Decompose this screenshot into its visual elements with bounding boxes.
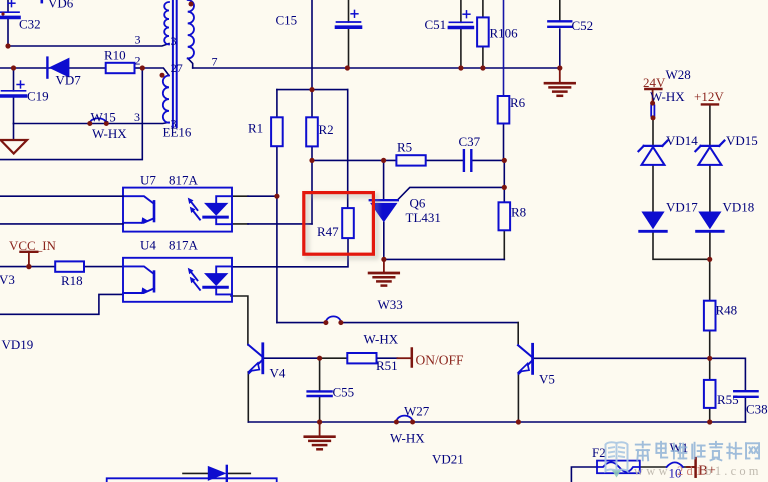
wire U4 collector input (R18 net) <box>0 266 55 268</box>
wire R51 to ON/OFF <box>377 357 398 359</box>
wire R55 bottom stub <box>709 408 711 422</box>
transformer winding primary top (pin 3) <box>164 2 169 45</box>
junction C15/rail <box>345 65 350 70</box>
svg-text:VD15: VD15 <box>726 133 758 148</box>
wire C51 column <box>460 0 462 22</box>
wire C19 column <box>13 68 15 91</box>
jumper W28 (vertical) <box>650 105 652 116</box>
svg-text:F2: F2 <box>592 445 606 460</box>
U4 LED <box>216 266 232 273</box>
svg-text:R47: R47 <box>317 224 339 239</box>
junction R55/rail <box>707 419 712 424</box>
diode VD17 <box>641 212 664 230</box>
jumper W33 <box>326 316 341 322</box>
junction TL431 anode/ground <box>381 257 386 262</box>
wire R10 to node 2 junction <box>135 67 143 69</box>
wire left rail y=68 (VD7/R10) <box>0 67 106 69</box>
svg-text:W-HX: W-HX <box>364 332 399 347</box>
svg-text:C55: C55 <box>333 385 355 400</box>
resistor R48 <box>704 301 716 331</box>
component box (bottom left, partial) <box>107 478 277 482</box>
jumper W1 <box>667 462 683 467</box>
resistor R5 <box>396 155 425 165</box>
ground (C52 net) <box>545 82 575 85</box>
wire W28 to VD14 <box>652 118 654 145</box>
svg-text:C37: C37 <box>459 134 481 149</box>
diode VD18 <box>698 212 721 230</box>
wire C38 branch <box>710 358 746 391</box>
svg-text:W27: W27 <box>404 404 430 419</box>
wire V4 base to C55 node <box>264 357 319 359</box>
resistor R47 <box>342 208 354 238</box>
transformer winding lower-left (pins 27/3) <box>163 76 169 123</box>
wire R47 column upper (89.6 to R47) <box>347 90 349 209</box>
wire TL431 ref line <box>398 187 505 199</box>
junction TL431 cathode node <box>381 158 386 163</box>
wire TL431 cathode column <box>383 160 385 199</box>
wire R6 column from top <box>503 0 505 96</box>
U7 light arrows <box>191 201 198 210</box>
watermark book icon <box>606 442 628 471</box>
junction R48/V5 base <box>707 356 712 361</box>
svg-text:+12V: +12V <box>694 89 724 104</box>
transformer T1 EE16 core <box>172 0 174 127</box>
transformer polarity dot lower-left <box>160 73 165 78</box>
wire V5 base to R48 node <box>534 357 710 359</box>
junction R1-R2 node <box>309 87 314 92</box>
svg-text:C19: C19 <box>27 89 49 104</box>
capacitor C51 <box>449 21 472 23</box>
wire main rail y=68 (pin 7 net) <box>193 67 560 69</box>
svg-text:V5: V5 <box>539 371 555 386</box>
junction node 2 (R10) <box>140 65 145 70</box>
wire sub-rail y=89.6 <box>277 89 348 91</box>
svg-text:R8: R8 <box>511 205 526 220</box>
svg-text:27: 27 <box>171 61 183 75</box>
svg-text:C32: C32 <box>19 16 41 31</box>
junction C51/rail <box>458 65 463 70</box>
U7 phototransistor <box>123 196 154 204</box>
diode (bottom left, partial) <box>208 466 227 481</box>
wire C37 to R6 node <box>472 159 504 161</box>
wire ON/OFF red segment <box>397 357 410 359</box>
ground (TL431) <box>369 272 399 275</box>
svg-text:TL431: TL431 <box>406 210 441 225</box>
wire U7 LED cathode link <box>232 223 248 225</box>
svg-text:U4: U4 <box>140 238 156 253</box>
jumper W27 <box>396 416 412 422</box>
resistor R2 <box>306 117 318 146</box>
svg-text:3: 3 <box>171 117 177 131</box>
junction R6/C37 node <box>502 158 507 163</box>
svg-text:ON/OFF: ON/OFF <box>416 353 465 368</box>
wire R1 top stub <box>276 90 278 118</box>
svg-text:3: 3 <box>134 110 140 124</box>
capacitor C37 <box>463 150 465 171</box>
wire U4 cathode to V4 collector <box>231 296 248 345</box>
svg-text:R5: R5 <box>397 139 412 154</box>
svg-text:W33: W33 <box>378 297 403 312</box>
wire R47 bottom to U4 anode <box>232 238 348 267</box>
wire B+ red stub <box>687 466 694 468</box>
junction U7 anode/R1 column <box>274 194 279 199</box>
wire x=312 column from top <box>311 0 313 90</box>
svg-text:W28: W28 <box>666 67 691 82</box>
wire R2 bottom to U7 cathode node <box>311 146 313 224</box>
capacitor C15 <box>337 21 361 23</box>
junction C19/VD7 line <box>11 65 16 70</box>
resistor R55 <box>704 380 716 408</box>
wire C15 column <box>348 0 350 22</box>
svg-text:3: 3 <box>135 32 141 46</box>
wire R55 top stub <box>709 358 711 380</box>
svg-text:C15: C15 <box>276 13 298 28</box>
wire W15 line y=123.5 (pin 3 bottom winding) <box>14 122 170 123</box>
svg-text:7: 7 <box>212 54 218 68</box>
junction R106/rail <box>480 65 485 70</box>
wire R106 column <box>482 0 484 17</box>
optocoupler U7 box <box>123 188 232 232</box>
fuse F2 <box>597 461 640 474</box>
svg-text:C52: C52 <box>572 18 594 33</box>
wire R48 bottom stub <box>709 331 711 359</box>
chassis ground (left) <box>1 140 28 154</box>
wire W33 rail right part to V5 <box>341 322 518 324</box>
transistor V5 <box>531 344 534 373</box>
wire fuse F2 right <box>640 466 667 468</box>
svg-text:W-HX: W-HX <box>390 431 425 446</box>
svg-text:VD21: VD21 <box>432 452 464 467</box>
capacitor C55 <box>308 390 332 392</box>
junction V4 base/C55 <box>317 356 322 361</box>
resistor R8 <box>499 202 511 230</box>
junction R2 bottom <box>309 158 314 163</box>
svg-text:24V: 24V <box>643 75 666 90</box>
wire pin3 top (y=46) <box>8 44 169 47</box>
wire C52 ground stub <box>559 68 561 83</box>
junction C55/rail <box>317 419 322 424</box>
junction V5 emitter/rail <box>516 419 521 424</box>
wire bottom rail y=422 <box>248 421 745 423</box>
wire to fuse F2 left / down to edge <box>571 467 597 482</box>
wire +12V to VD15 <box>709 105 711 145</box>
wire VD15 to VD18 <box>709 165 711 211</box>
stray polarity dot top-left <box>1 12 4 15</box>
svg-text:R18: R18 <box>61 273 83 288</box>
U4 phototransistor <box>123 266 154 274</box>
wire R2 top stub <box>311 90 313 118</box>
capacitor C32 <box>0 11 19 13</box>
svg-text:817A: 817A <box>169 172 199 187</box>
svg-text:R51: R51 <box>376 358 398 373</box>
svg-text:VD18: VD18 <box>723 200 755 215</box>
svg-text:W15: W15 <box>91 110 116 125</box>
capacitor C19 <box>2 90 26 92</box>
wire node2 column down and left to x=0 <box>0 68 142 160</box>
svg-text:W-HX: W-HX <box>92 126 127 141</box>
svg-text:www 2d1b1.com: www 2d1b1.com <box>634 464 762 478</box>
wire node2 to winding pin 27 lead <box>142 68 169 76</box>
diode VD7 <box>46 58 48 78</box>
transistor V4 <box>261 344 264 373</box>
wire R48 top stub <box>709 259 711 300</box>
svg-text:W-HX: W-HX <box>650 89 685 104</box>
svg-text:817A: 817A <box>169 238 199 253</box>
svg-text:R10: R10 <box>104 48 126 63</box>
svg-text:3: 3 <box>171 34 177 48</box>
svg-text:C38: C38 <box>746 401 768 416</box>
capacitor C52 <box>548 20 571 22</box>
watermark chinese characters 家电维修资料网 <box>636 442 650 461</box>
svg-text:V4: V4 <box>270 366 286 381</box>
U7 LED <box>216 196 232 203</box>
wire R1 column down to W33 rail <box>276 146 278 322</box>
wire C32 column <box>7 0 9 12</box>
wire U4 emitter out to left edge <box>0 294 123 314</box>
svg-text:Q6: Q6 <box>410 196 426 211</box>
wire VD14 to VD17 <box>652 165 654 211</box>
svg-text:VD7: VD7 <box>56 72 82 87</box>
wire C52 column <box>559 0 561 21</box>
svg-text:R48: R48 <box>716 303 738 318</box>
wire VD17 to junction <box>653 233 710 259</box>
wire anode rail y=259.4 <box>384 258 504 260</box>
junction VD17-VD18 <box>707 257 712 262</box>
resistor R10 <box>106 63 135 73</box>
svg-text:V3: V3 <box>0 272 15 287</box>
wire C19 to chassis ground stub <box>13 124 15 140</box>
wire TL431 anode <box>383 222 385 259</box>
svg-text:VCC_IN: VCC_IN <box>9 238 57 253</box>
zener diode VD14 <box>644 145 663 147</box>
wire bottom-left diode leads <box>183 472 208 474</box>
wire pin7 winding lead <box>188 58 193 68</box>
red highlight box around R47 <box>307 196 377 258</box>
svg-text:R55: R55 <box>717 392 739 407</box>
svg-text:R6: R6 <box>510 95 526 110</box>
transformer polarity dot upper <box>189 2 194 7</box>
wire R8 top stub <box>503 187 505 202</box>
U4 light arrows <box>191 271 198 280</box>
optocoupler U4 box <box>123 258 232 302</box>
wire R6 bottom stub <box>503 124 505 161</box>
wire C55 node to R51 <box>320 357 348 359</box>
junction C32/pin3 <box>5 43 10 48</box>
wire R5 to C37 <box>426 159 464 161</box>
svg-text:U7: U7 <box>140 172 156 187</box>
wire V5 emitter down <box>517 373 519 422</box>
wire V4 emitter down <box>247 372 249 422</box>
capacitor C38 <box>734 390 757 392</box>
jumper W15 <box>90 118 107 123</box>
resistor R106 <box>477 17 489 46</box>
wire R8 bottom to anode rail <box>503 230 505 259</box>
svg-text:VD6: VD6 <box>48 0 74 11</box>
wire V5 collector down <box>517 323 519 345</box>
wire U7 LED anode link <box>232 195 248 197</box>
resistor R1 <box>271 117 283 146</box>
svg-text:R2: R2 <box>319 122 334 137</box>
wire C55 column <box>319 358 321 391</box>
port B+ <box>694 458 697 477</box>
zener diode VD15 <box>701 145 720 147</box>
resistor R6 <box>498 96 510 124</box>
resistor R51 <box>347 353 376 363</box>
wire U7 transistor pins to left edge <box>0 195 123 197</box>
svg-text:C51: C51 <box>425 17 447 32</box>
ground (C55) <box>305 435 335 438</box>
wire W1 to B+ segment <box>683 466 694 468</box>
junction ref/R8 node <box>502 185 507 190</box>
transformer winding secondary right (pin 7) <box>188 0 194 59</box>
wire VD18 to junction <box>709 233 711 259</box>
svg-text:EE16: EE16 <box>163 125 192 140</box>
wire C55 ground stub <box>319 422 321 436</box>
svg-text:VD14: VD14 <box>666 133 698 148</box>
wire TL431 ground stub <box>383 259 385 272</box>
op-amp U1 TL431 Q6 <box>370 199 398 201</box>
junction C52/rail <box>557 65 562 70</box>
wire node to ref junction <box>503 160 505 187</box>
svg-text:R106: R106 <box>490 26 519 41</box>
port ON/OFF <box>411 349 414 367</box>
wire W33 rail left part <box>277 322 326 324</box>
wire 24V port stub <box>652 89 654 102</box>
resistor R18 <box>55 261 84 271</box>
wire node y=160.4 segment <box>312 159 396 161</box>
svg-text:VD17: VD17 <box>666 200 698 215</box>
svg-text:R1: R1 <box>248 120 263 135</box>
svg-text:VD19: VD19 <box>2 337 34 352</box>
